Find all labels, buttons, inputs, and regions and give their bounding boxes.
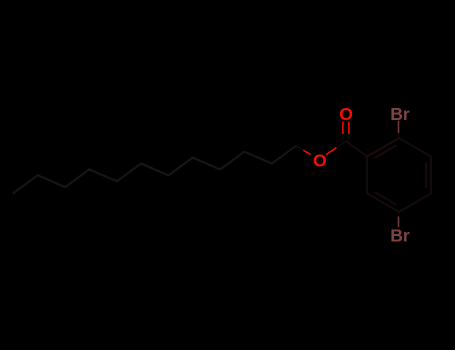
bond C5-Br bottom (maroon half near Br) bbox=[398, 217, 400, 227]
aromatic inner line C5=C6 bbox=[374, 192, 396, 205]
svg-text:Br: Br bbox=[390, 226, 410, 246]
svg-text:Br: Br bbox=[390, 104, 410, 124]
bond C7-C1 ring attachment bbox=[346, 141, 367, 157]
double bond C7=O carbonyl (dark halves) bbox=[342, 134, 344, 141]
double bond C7=O carbonyl (red halves) bbox=[342, 122, 344, 135]
bond C2-Br top (dark half) bbox=[398, 133, 400, 138]
svg-text:O: O bbox=[339, 104, 353, 124]
bond C2-Br top (maroon half near Br) bbox=[398, 121, 400, 133]
bond C5-Br bottom (dark half) bbox=[398, 212, 400, 217]
bond C1 chain - O ester (red half near O) bbox=[303, 150, 310, 154]
aromatic inner line C3=C4 bbox=[425, 162, 427, 188]
svg-text:O: O bbox=[313, 151, 327, 171]
ring bond C1-C2 (slightly brighter) bbox=[367, 138, 399, 157]
wire: dodecyl chain skeleton C12..C1 bbox=[14, 146, 296, 193]
aromatic inner line C1=C2 bbox=[374, 145, 396, 158]
benzene ring outline C1-C2-C3-C4-C5-C6 bbox=[367, 138, 431, 212]
bond O ester - C7 (red half near O) bbox=[326, 148, 336, 155]
bond O ester - C7 carbonyl (dark half) bbox=[336, 141, 345, 148]
bond C1 chain - O ester (dark half) bbox=[296, 146, 304, 151]
